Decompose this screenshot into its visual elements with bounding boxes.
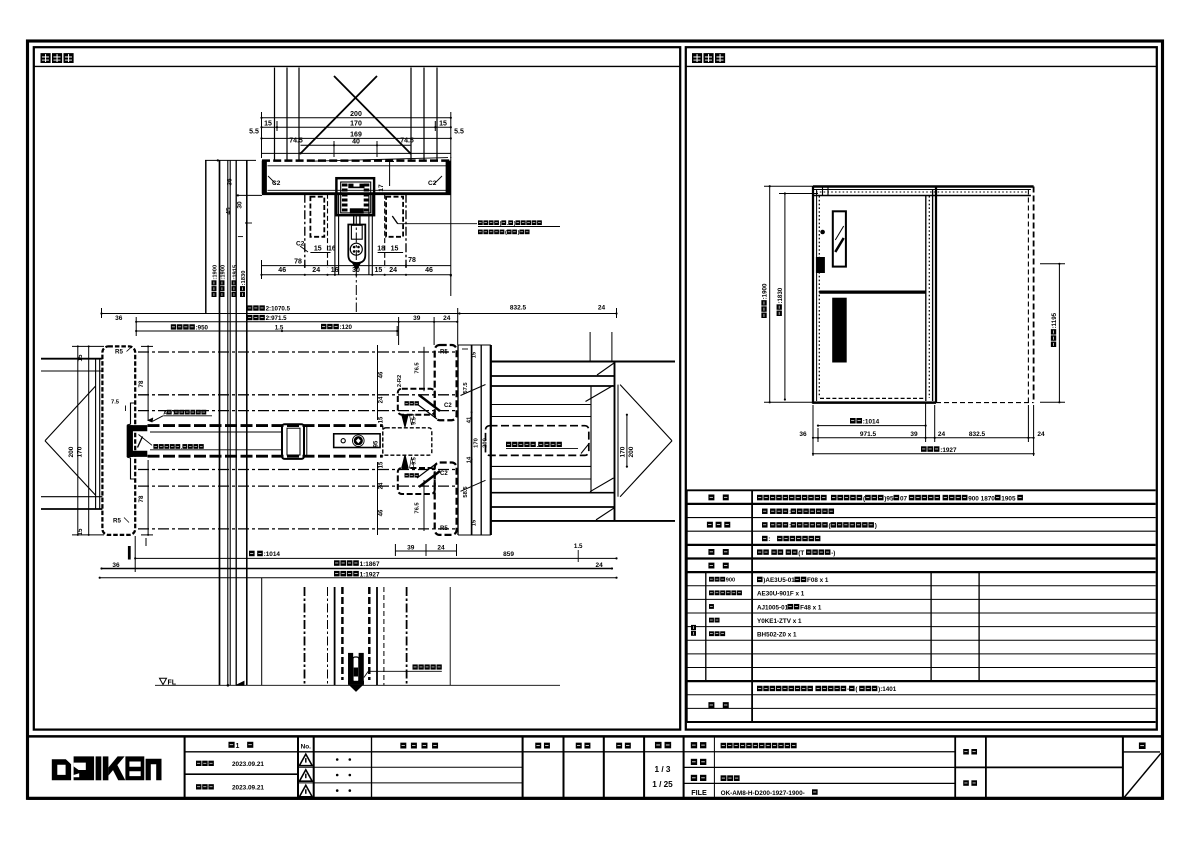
spec table left edge reinforcement xyxy=(686,490,688,722)
spec row labels xyxy=(708,494,728,500)
svg-text:24: 24 xyxy=(389,267,397,274)
left panel title blocks (dan-men-zu) xyxy=(41,53,74,63)
svg-text:15: 15 xyxy=(77,354,84,361)
hanger bolt shaft xyxy=(353,215,355,224)
svg-text:1905: 1905 xyxy=(1001,495,1016,502)
wall stud verticals above header bar xyxy=(274,68,276,161)
svg-text::1830: :1830 xyxy=(777,287,784,303)
svg-text:1.5: 1.5 xyxy=(275,325,284,332)
svg-text:78: 78 xyxy=(294,259,302,266)
svg-text:15: 15 xyxy=(375,267,383,274)
svg-text:24: 24 xyxy=(379,396,385,403)
bottom dim line 1927 xyxy=(100,577,617,579)
frame column verticals xyxy=(457,345,459,535)
warning triangles xyxy=(299,754,312,766)
svg-text:15: 15 xyxy=(439,121,447,128)
svg-text:24: 24 xyxy=(437,544,445,551)
right panel title blocks (sho-men-zu) xyxy=(692,53,725,63)
svg-text:832.5: 832.5 xyxy=(969,431,986,438)
bottom dim line 1014/859 xyxy=(135,557,616,559)
revision dots xyxy=(336,758,339,761)
elevation bottom dim line main xyxy=(813,437,1034,439)
side cover profile left xyxy=(310,197,324,237)
svg-text:39: 39 xyxy=(910,431,918,438)
svg-text:C2: C2 xyxy=(444,403,452,409)
center line vertical xyxy=(355,215,357,312)
bottom dim line 1867 xyxy=(102,568,613,570)
header bar (top track housing) xyxy=(262,159,451,161)
lower diagonal strokes xyxy=(419,471,440,487)
door leaf plan top/bottom edges xyxy=(148,424,383,427)
svg-text:16: 16 xyxy=(328,246,336,253)
svg-text:15: 15 xyxy=(472,351,478,358)
svg-text:): ) xyxy=(875,523,877,530)
svg-text:17: 17 xyxy=(378,184,385,192)
svg-text:15: 15 xyxy=(379,461,385,468)
svg-text:2023.09.21: 2023.09.21 xyxy=(232,761,264,768)
svg-text:30: 30 xyxy=(237,201,244,209)
left break triangle xyxy=(45,386,96,441)
svg-text:46: 46 xyxy=(379,371,385,378)
svg-text:15: 15 xyxy=(391,246,399,253)
spec table label column divider xyxy=(751,490,753,722)
svg-text::1900: :1900 xyxy=(213,265,219,280)
svg-text:2-R2: 2-R2 xyxy=(397,375,403,387)
svg-text::1900: :1900 xyxy=(762,283,769,299)
svg-text:18: 18 xyxy=(377,246,385,253)
svg-text:78: 78 xyxy=(138,380,145,387)
svg-text::1014: :1014 xyxy=(863,419,880,426)
guide pin detail xyxy=(348,653,353,685)
svg-text:200: 200 xyxy=(68,446,75,457)
svg-text:46: 46 xyxy=(278,267,286,274)
svg-text:(: ( xyxy=(505,230,507,236)
jamb step notches xyxy=(127,403,135,425)
svg-text:971.5: 971.5 xyxy=(860,431,877,438)
bar top slope line xyxy=(312,158,448,162)
elevation outer frame left jamb xyxy=(812,186,814,404)
annotation fixing screw cap left xyxy=(153,444,203,451)
name rows lines xyxy=(644,751,955,753)
elevation bottom xyxy=(813,401,936,403)
top dimension lines 200/170/169/40 xyxy=(262,117,451,119)
elevation right dim 1195 xyxy=(1058,264,1060,403)
lower mohair marks xyxy=(402,455,408,468)
svg-text::120: :120 xyxy=(340,324,353,331)
svg-text:30: 30 xyxy=(352,267,360,274)
svg-text:07: 07 xyxy=(900,495,908,502)
svg-text:41: 41 xyxy=(467,416,473,423)
bottom dim 39/24 line xyxy=(395,550,456,552)
plan top dim line A xyxy=(102,313,617,315)
top dim extension ticks xyxy=(261,112,263,158)
spec table part-no dividers xyxy=(930,572,932,681)
svg-text:900: 900 xyxy=(726,578,735,584)
FL line xyxy=(155,684,560,686)
hanger door machine outer xyxy=(336,178,374,215)
approval headers xyxy=(535,743,550,749)
kenmei labels xyxy=(963,749,977,755)
door top ticks xyxy=(822,187,824,196)
jamb 78 dims xyxy=(147,346,149,421)
lower latch profile xyxy=(398,468,435,494)
right panel header line xyxy=(686,65,1157,67)
pocket end dashed xyxy=(1027,190,1029,403)
left wall horizontal lines xyxy=(41,358,102,360)
side cover profile right xyxy=(386,197,403,237)
svg-text:C2: C2 xyxy=(428,180,437,187)
svg-text:F48 x 1: F48 x 1 xyxy=(800,604,822,611)
svg-text:2023.09.21: 2023.09.21 xyxy=(232,785,264,792)
door pull black xyxy=(816,257,825,273)
svg-text:AE30U-901F x 1: AE30U-901F x 1 xyxy=(757,591,805,598)
svg-text:1.5: 1.5 xyxy=(574,543,583,550)
spec sub labels xyxy=(691,625,696,636)
svg-text:5.5: 5.5 xyxy=(454,129,464,136)
svg-text:76.5: 76.5 xyxy=(415,362,421,374)
svg-text:24: 24 xyxy=(598,305,606,312)
hanger roller strips xyxy=(342,184,348,213)
svg-text:900 1870: 900 1870 xyxy=(968,495,995,502)
name labels xyxy=(691,742,707,748)
svg-text:R5: R5 xyxy=(440,526,448,532)
svg-text:95: 95 xyxy=(374,440,380,447)
door lock body plan xyxy=(334,434,380,448)
svg-text:14: 14 xyxy=(467,456,473,463)
spec table heavy row lines xyxy=(687,503,1156,505)
leaf left dotted edge xyxy=(818,196,820,398)
upper mohair marks xyxy=(402,415,408,427)
svg-text:15: 15 xyxy=(264,121,272,128)
annotation A-wall xyxy=(163,410,206,417)
svg-text:7.5: 7.5 xyxy=(111,400,120,406)
title block outer xyxy=(28,735,1163,737)
svg-text:170: 170 xyxy=(350,121,362,128)
svg-text:200: 200 xyxy=(350,111,362,118)
svg-text:859: 859 xyxy=(503,551,514,558)
svg-text:58.5: 58.5 xyxy=(463,486,469,498)
17 dim right of machine xyxy=(389,161,391,186)
svg-text:2:971.5: 2:971.5 xyxy=(266,315,288,322)
svg-text:46: 46 xyxy=(425,267,433,274)
svg-text:170: 170 xyxy=(474,438,480,448)
svg-text::1900: :1900 xyxy=(221,265,227,280)
svg-text:-: - xyxy=(847,686,849,693)
svg-text::1915: :1915 xyxy=(233,264,239,280)
svg-text:OK-AM8-H-D200-1927-1900-: OK-AM8-H-D200-1927-1900- xyxy=(721,790,805,797)
svg-text:1 / 25: 1 / 25 xyxy=(652,780,673,789)
svg-text:170: 170 xyxy=(620,446,627,457)
svg-text:40: 40 xyxy=(352,139,360,146)
svg-text:(T: (T xyxy=(798,550,804,557)
svg-text::1927: :1927 xyxy=(940,447,957,454)
svg-text:74.5: 74.5 xyxy=(289,138,303,145)
right jamb xyxy=(928,196,930,398)
elevation left dims xyxy=(769,186,771,402)
svg-text:1:1927: 1:1927 xyxy=(360,571,380,578)
daiken logo xyxy=(52,759,71,780)
revision dates xyxy=(196,761,214,766)
FL tick xyxy=(236,681,244,685)
elevation bottom dim 1014 xyxy=(818,425,926,427)
jamb pocket (door catch) thick xyxy=(127,425,133,457)
svg-text:24: 24 xyxy=(1037,431,1045,438)
door mid rail xyxy=(819,290,926,293)
title block verticals xyxy=(184,736,186,798)
scale column xyxy=(655,742,671,748)
right break dim xyxy=(626,415,628,467)
right wall end cap xyxy=(614,362,616,521)
lower handle bar black xyxy=(832,298,847,363)
right column dims xyxy=(462,348,468,350)
svg-text::1195: :1195 xyxy=(1051,312,1058,328)
svg-text:R5: R5 xyxy=(115,349,123,356)
long dim lines under top assembly xyxy=(262,265,451,267)
svg-text:36: 36 xyxy=(112,562,120,569)
right break triangle xyxy=(620,385,672,441)
svg-text:24: 24 xyxy=(312,267,320,274)
right wall hatch xyxy=(586,386,614,402)
left panel frame (section view) xyxy=(34,47,680,729)
name values xyxy=(721,743,797,749)
pocket end verticals xyxy=(590,386,592,493)
guide pin label xyxy=(413,664,442,669)
svg-text:36: 36 xyxy=(115,315,123,322)
lower jamb profile xyxy=(435,463,457,535)
door leaf side edges xyxy=(925,196,927,402)
svg-text:24: 24 xyxy=(595,562,603,569)
spec values xyxy=(757,495,1023,503)
elevation total width 1927 xyxy=(813,453,1034,455)
svg-text::: : xyxy=(768,536,770,543)
svg-text:BH502-Z0 x 1: BH502-Z0 x 1 xyxy=(757,632,797,639)
svg-text:36: 36 xyxy=(227,178,234,186)
svg-text:2:1070.5: 2:1070.5 xyxy=(266,306,291,313)
svg-text:)95: )95 xyxy=(884,495,894,502)
upper latch profile xyxy=(398,389,435,415)
svg-text:45: 45 xyxy=(226,207,233,215)
elevation head rail xyxy=(813,185,1034,187)
svg-text:1:1867: 1:1867 xyxy=(360,561,380,568)
svg-text:AJ1005-01: AJ1005-01 xyxy=(757,604,789,611)
svg-text:39: 39 xyxy=(407,544,415,551)
svg-text:39: 39 xyxy=(413,315,421,322)
svg-text:): ) xyxy=(518,230,520,236)
svg-text:78: 78 xyxy=(408,257,416,264)
spec table outer top xyxy=(687,489,1156,491)
svg-text::1830: :1830 xyxy=(241,271,247,286)
inter-wall dashed centerlines xyxy=(138,351,455,353)
svg-text:No.: No. xyxy=(301,744,312,751)
floor area verticals xyxy=(261,578,263,685)
height dimension verticals xyxy=(219,160,221,685)
door end slot in frame column xyxy=(383,428,432,455)
svg-text::950: :950 xyxy=(196,325,209,332)
spec table light row lines xyxy=(687,517,1156,519)
svg-text:76.5: 76.5 xyxy=(415,502,421,514)
svg-text:9.5: 9.5 xyxy=(412,417,418,425)
spec table sub column divider xyxy=(705,572,707,681)
frame col left dim vertical xyxy=(377,345,379,420)
svg-text:)AE3U5-01: )AE3U5-01 xyxy=(763,577,795,584)
svg-text:36: 36 xyxy=(799,431,807,438)
annotation text 2 lines xyxy=(478,220,542,227)
X cross brace xyxy=(334,76,411,154)
plan top dim line B xyxy=(136,321,457,323)
plan top dim line C xyxy=(136,330,397,332)
svg-text:832.5: 832.5 xyxy=(510,305,527,312)
rotated height labels 1900/1915/1830 xyxy=(212,265,219,297)
svg-text:24: 24 xyxy=(379,482,385,489)
mirror on door xyxy=(833,211,846,266)
right panel frame (elevation view) xyxy=(686,47,1157,729)
svg-text:F08 x 1: F08 x 1 xyxy=(807,577,829,584)
page cell xyxy=(1139,742,1146,749)
svg-text:C2: C2 xyxy=(440,471,448,477)
svg-text:15: 15 xyxy=(379,416,385,423)
svg-text:74.5: 74.5 xyxy=(400,138,414,145)
svg-text:15: 15 xyxy=(472,519,478,526)
svg-text:5.5: 5.5 xyxy=(249,129,259,136)
svg-text:200: 200 xyxy=(628,446,635,457)
revision history header xyxy=(400,743,438,749)
plan top dim labels xyxy=(247,305,291,312)
left jamb profile xyxy=(102,346,135,535)
revision table header first-edition xyxy=(228,742,253,750)
svg-text:24: 24 xyxy=(443,315,451,322)
revision rows xyxy=(298,766,523,768)
svg-text:-): -) xyxy=(831,550,835,557)
hanger bolt body xyxy=(348,225,365,264)
door handle housing plan xyxy=(282,424,304,459)
upper diagonal strokes xyxy=(419,395,440,411)
upper jamb profile xyxy=(435,345,457,420)
svg-text:1 / 3: 1 / 3 xyxy=(655,765,671,774)
svg-text:1: 1 xyxy=(235,743,239,750)
svg-text:Y0KE1-ZTV x 1: Y0KE1-ZTV x 1 xyxy=(757,618,802,625)
svg-text:46: 46 xyxy=(379,509,385,516)
door knob dot xyxy=(820,230,825,235)
leader to annotation xyxy=(398,223,477,225)
svg-text:R5: R5 xyxy=(113,518,121,525)
svg-text:169: 169 xyxy=(350,132,362,139)
svg-text:):1401: ):1401 xyxy=(878,686,897,693)
left panel header line xyxy=(34,65,680,67)
svg-text:24: 24 xyxy=(938,431,946,438)
svg-text:16: 16 xyxy=(331,267,339,274)
svg-text:15: 15 xyxy=(314,246,322,253)
jamb left dim verticals 15 xyxy=(77,346,79,535)
svg-text:78: 78 xyxy=(138,495,145,502)
svg-text:R5: R5 xyxy=(440,350,448,356)
pocket cap dashed box with text xyxy=(486,426,589,456)
svg-text:FL: FL xyxy=(168,679,177,686)
right wall horizontal lines xyxy=(491,361,675,363)
rail verticals below bar xyxy=(304,194,306,268)
svg-text::1014: :1014 xyxy=(264,551,281,558)
svg-text:9.5: 9.5 xyxy=(412,457,418,465)
svg-text:FILE: FILE xyxy=(691,788,707,797)
